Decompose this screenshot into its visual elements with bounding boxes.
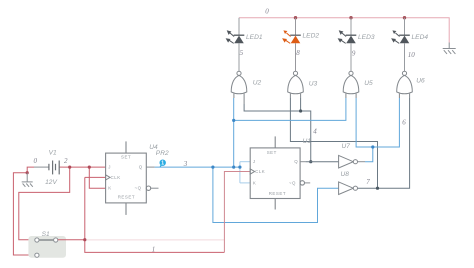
svg-text:K: K [108, 186, 111, 191]
svg-text:U3: U3 [309, 80, 318, 87]
wire net 1 to FF2 clock [224, 172, 250, 253]
NOR gate U3 [288, 71, 304, 94]
node dot net4 [299, 109, 302, 112]
wire net 7 (U8 out, U3 left input, U6 right input) [290, 98, 409, 188]
svg-text:SET: SET [267, 150, 277, 155]
svg-text:1: 1 [152, 246, 156, 254]
svg-text:K: K [253, 180, 256, 185]
ground (right, net 0) [443, 43, 456, 54]
wire net 0 left (battery minus to ground and switch) [13, 167, 34, 255]
svg-text:Q: Q [294, 159, 298, 164]
svg-text:3: 3 [183, 160, 188, 168]
svg-text:0: 0 [34, 157, 38, 165]
svg-text:4: 4 [313, 128, 317, 136]
svg-text:CLK: CLK [111, 175, 121, 180]
wire net 6 (U7 out to U5/U6 inputs) [356, 98, 399, 162]
wire FF2 Q to U7 input [306, 161, 339, 163]
svg-text:U2: U2 [253, 79, 262, 86]
JK flip-flop U1 [250, 136, 310, 209]
U3 input stubs [289, 94, 291, 98]
U2 input stubs [233, 94, 235, 98]
LED1 [226, 18, 245, 71]
wire net 3 J/K steps (light) [240, 162, 250, 183]
U6 input stubs [398, 94, 400, 98]
svg-text:U6: U6 [416, 78, 425, 85]
node dot net1 [83, 238, 86, 241]
node dot LED4 [403, 16, 406, 19]
svg-text:V1: V1 [49, 149, 57, 156]
node dot net6 [371, 145, 374, 148]
svg-text:7: 7 [366, 178, 370, 186]
wire net 1 (switch out to FF clocks) [58, 177, 225, 252]
NOR gate U5 [343, 71, 359, 94]
ground (battery, net 0) [22, 173, 33, 187]
wire net 0 top rail [239, 18, 449, 43]
NOR gate U2 [231, 71, 247, 94]
svg-text:~Q: ~Q [289, 180, 296, 185]
inverter U8 [339, 182, 358, 195]
wire net 3 (U4 Q) [155, 98, 346, 223]
svg-text:1: 1 [161, 161, 164, 167]
svg-text:CLK: CLK [255, 169, 265, 174]
svg-text:6: 6 [402, 119, 406, 127]
node dot net0 [26, 171, 29, 174]
svg-text:2: 2 [64, 157, 68, 165]
svg-text:U5: U5 [364, 80, 373, 87]
svg-text:Q: Q [139, 165, 143, 170]
svg-text:12V: 12V [45, 179, 57, 186]
wire net 1 faint parallel [86, 239, 224, 241]
NOR gate U6 [397, 71, 413, 94]
LED2 (lit, orange) [282, 18, 301, 71]
node dot LED3 [349, 16, 352, 19]
svg-text:0: 0 [265, 7, 269, 15]
svg-text:9: 9 [352, 49, 356, 57]
svg-text:~Q: ~Q [135, 186, 142, 191]
svg-text:RESET: RESET [269, 191, 286, 196]
LED4 [391, 18, 410, 71]
node dot net4 on Q row [309, 160, 312, 163]
wire net 2 (battery plus to FF1 J,K and switch) [19, 167, 106, 240]
LED3 [338, 18, 357, 71]
svg-text:8: 8 [296, 49, 300, 57]
node dots net3 [211, 166, 214, 169]
switch S1 [28, 236, 66, 258]
svg-text:U1: U1 [303, 138, 312, 145]
node dot net7 [376, 187, 379, 190]
inverter U7 [339, 155, 358, 168]
svg-text:U7: U7 [342, 143, 351, 150]
svg-text:J: J [108, 165, 111, 170]
node dots net2 [68, 166, 71, 169]
svg-text:LED3: LED3 [358, 34, 375, 41]
svg-text:LED2: LED2 [303, 33, 320, 40]
probe PR2 [160, 160, 166, 167]
svg-text:PR2: PR2 [156, 150, 169, 157]
svg-text:J: J [253, 159, 256, 164]
svg-text:10: 10 [408, 51, 416, 59]
wire net 4 (FF2 Q to U2/U3 right inputs) [244, 98, 311, 162]
node dot LED2 [294, 16, 297, 19]
battery V1 [34, 161, 63, 175]
svg-text:S1: S1 [42, 231, 50, 238]
svg-text:5: 5 [240, 49, 244, 57]
svg-text:RESET: RESET [118, 194, 135, 199]
svg-text:LED1: LED1 [246, 34, 263, 41]
JK flip-flop U4 [106, 141, 159, 215]
svg-text:SET: SET [121, 155, 131, 160]
svg-text:U8: U8 [341, 171, 350, 178]
U5 input stubs [345, 94, 347, 98]
svg-text:LED4: LED4 [412, 34, 429, 41]
